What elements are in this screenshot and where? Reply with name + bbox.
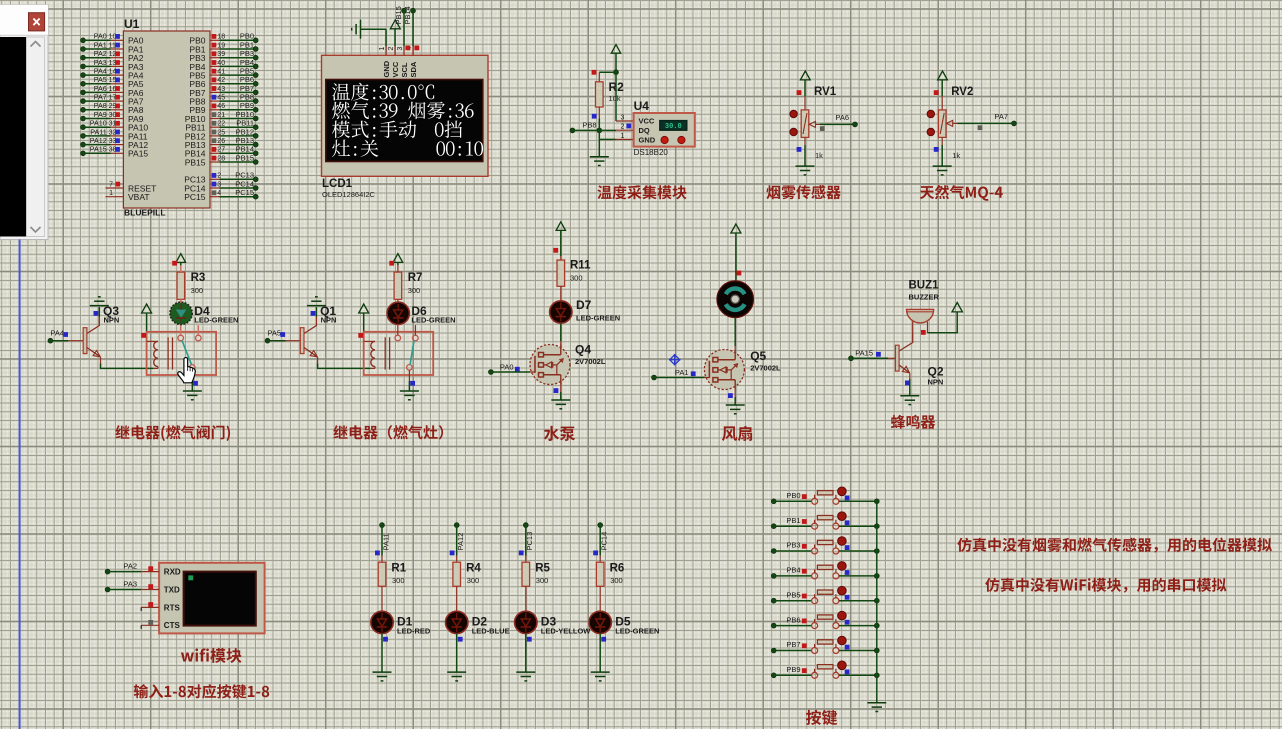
svg-text:PA1: PA1 (675, 368, 689, 377)
svg-text:LED-RED: LED-RED (397, 627, 431, 636)
no-place marker (blue diamond) (669, 354, 680, 365)
svg-text:PB4: PB4 (240, 58, 254, 67)
annotation 仿真中没有烟雾和燃气传感器，用的电位器模拟 (957, 538, 1272, 553)
state square (R1 top) (375, 551, 380, 556)
svg-text:PB9: PB9 (240, 101, 254, 110)
U1 right pin 4 wire / node PC15 (210, 196, 220, 198)
svg-text:PC15: PC15 (235, 188, 254, 197)
svg-text:PA8: PA8 (94, 101, 107, 110)
fan motor (717, 281, 754, 318)
wire junction to DQ pin (599, 129, 616, 131)
svg-text:7: 7 (109, 181, 113, 188)
U1 left pin 10 wire / node PA0 (81, 38, 86, 43)
svg-text:PB0: PB0 (240, 32, 254, 41)
label 风扇 (722, 426, 752, 441)
svg-text:DQ: DQ (639, 126, 650, 135)
transistor Q1 NPN (300, 328, 304, 354)
U1 left pin 32 wire / node PA11 (81, 134, 86, 139)
svg-text:PA15: PA15 (128, 149, 148, 159)
annotation 仿真中没有WiFi模块，用的串口模拟 (985, 578, 1226, 593)
relay switch arm (410, 341, 414, 365)
wire button PB9 to bus (839, 674, 877, 676)
node PB1 terminal (771, 524, 776, 529)
mouse cursor hand (178, 358, 196, 383)
state square (R11 top) (553, 248, 558, 253)
svg-text:PB15: PB15 (236, 153, 254, 162)
wire power to RV1 (804, 80, 806, 96)
led D7 LED-GREEN off (550, 301, 572, 323)
wire button PB4 to bus (839, 575, 877, 577)
label 蜂鸣器 (891, 415, 935, 429)
button actuator (PB7) (838, 636, 847, 645)
svg-text:BLUEPILL: BLUEPILL (124, 208, 166, 218)
state square (R4 top) (450, 551, 455, 556)
power arrow (R7 top) (393, 254, 403, 263)
state square (D3 bottom) (527, 637, 532, 642)
state square (R5 top) (519, 551, 524, 556)
state square (Q1 collector) (311, 311, 316, 316)
wire PB1 to button (774, 525, 812, 527)
resistor R4 300 (456, 556, 458, 563)
svg-text:NPN: NPN (928, 378, 944, 387)
floating preview window (0, 5, 48, 240)
resistor R1 300 (381, 556, 383, 563)
node PA15 terminal (849, 356, 854, 361)
ground (D3) (516, 672, 535, 681)
ground (D5) (591, 672, 610, 681)
svg-text:PA15: PA15 (855, 349, 873, 358)
wire PB4 to button (774, 575, 812, 577)
Q3 emitter (87, 348, 100, 357)
U1 left pin 13 wire / node PA3 (81, 64, 86, 69)
svg-text:300: 300 (392, 576, 405, 585)
power arrow (R11 top) (556, 222, 565, 231)
state square (buzzer) (921, 330, 926, 335)
ground (relay) (400, 391, 419, 400)
relay coil (147, 340, 158, 342)
push button PB1 (812, 523, 818, 529)
node PA0 terminal (489, 370, 494, 375)
state square (Q5 source) (728, 393, 733, 398)
state square (button PB9) (802, 668, 807, 673)
svg-text:LED-YELLOW: LED-YELLOW (541, 627, 591, 636)
svg-text:3: 3 (397, 47, 404, 51)
buzzer leads (912, 322, 914, 334)
svg-text:18: 18 (217, 34, 225, 41)
svg-text:R6: R6 (610, 562, 625, 574)
ground (above Q3, flipped) (90, 297, 109, 306)
bus junction (PB6) (874, 623, 879, 628)
U1 right pin 42 wire / node PB6 (210, 83, 220, 85)
svg-text:26: 26 (217, 138, 225, 145)
svg-text:19: 19 (217, 42, 225, 49)
U1 right pin 21 wire / node PB10 (210, 118, 220, 120)
svg-text:RV1: RV1 (814, 86, 837, 98)
node junction dot R2 top (614, 70, 619, 75)
U1 left pin 17 wire / node PA7 (81, 99, 86, 104)
LCD screen text line1 (332, 83, 434, 101)
relay core (167, 337, 169, 369)
wire PA0 to Q4 gate (491, 371, 530, 373)
U1 RESET pin 7 (106, 187, 124, 189)
state square (R6 top) (593, 551, 598, 556)
U1 right pin 43 wire / node PB7 (210, 91, 220, 93)
svg-text:VBAT: VBAT (128, 192, 150, 202)
node PC14 terminal (598, 523, 603, 528)
svg-text:PA3: PA3 (123, 580, 137, 589)
wire GND pin of U4 (616, 138, 634, 140)
bus junction (PB3) (874, 549, 879, 554)
U1 right pin 27 wire / node PB14 (210, 152, 220, 154)
relay coil (364, 340, 375, 342)
state square (RV2 top) (934, 90, 939, 95)
svg-text:PA5: PA5 (267, 329, 281, 338)
label 天然气MQ-4 (920, 185, 1003, 201)
microcontroller U1 BLUEPILL (123, 31, 210, 208)
wire button PB7 to bus (839, 650, 877, 652)
svg-text:PA3: PA3 (94, 58, 107, 67)
power arrow (R3 top) (176, 254, 186, 263)
wire PB8 terminal (570, 128, 575, 133)
wire PC13 to R5 (525, 525, 527, 555)
svg-text:PB13: PB13 (236, 136, 254, 145)
svg-text:LED-GREEN: LED-GREEN (615, 627, 659, 636)
push button PB6 (812, 623, 818, 629)
U1 right pin 25 wire / node PB12 (210, 135, 220, 137)
svg-text:4: 4 (217, 190, 221, 197)
wire PB3 to button (774, 550, 812, 552)
button actuator (PB1) (838, 512, 847, 521)
resistor R3 300 (177, 272, 185, 299)
svg-text:PA6: PA6 (835, 113, 849, 122)
U1 right pin 26 wire / node PB13 (210, 144, 220, 146)
RV2 bottom to ground (941, 137, 943, 145)
svg-text:41: 41 (217, 69, 225, 76)
U1 left pin 16 wire / node PA6 (81, 90, 86, 95)
wire button PB3 to bus (839, 550, 877, 552)
node PA11 terminal (380, 523, 385, 528)
wire Q1 collector to flipped ground (315, 307, 317, 317)
svg-text:3: 3 (217, 181, 221, 188)
wire R2 bottom to PB8 row (598, 119, 600, 131)
node PB6 terminal (771, 623, 776, 628)
svg-text:PB11: PB11 (236, 119, 254, 128)
button actuator (PB6) (838, 611, 847, 620)
U1 VBAT pin 1 (106, 196, 124, 198)
wire button PB0 to bus (839, 500, 877, 502)
U1 right pin 45 wire / node PB8 (210, 100, 220, 102)
wifi RXD pin / node PA2 (141, 571, 159, 573)
led D2 LED-BLUE off (446, 611, 468, 633)
wire PA1 to Q5 gate (654, 377, 705, 379)
bus junction (PB7) (874, 648, 879, 653)
LCD1 pin state squares (405, 46, 410, 51)
wire button PB5 to bus (839, 600, 877, 602)
svg-text:TXD: TXD (164, 585, 180, 594)
led D6 LED-GREEN (397, 324, 399, 335)
svg-text:40: 40 (217, 60, 225, 67)
wire PA15 to Q2 base (851, 357, 888, 359)
U1 left pin 30 wire / node PA9 (81, 116, 86, 121)
svg-text:PB3: PB3 (240, 49, 254, 58)
relay contact circles (178, 335, 184, 341)
bus junction (PB4) (874, 574, 879, 579)
svg-text:GND: GND (382, 60, 391, 77)
ground (RV2) (933, 166, 952, 175)
svg-text:1: 1 (109, 190, 113, 197)
wire power to R11 (560, 230, 562, 256)
wire PB7 to button (774, 650, 812, 652)
ground (above Q1, flipped) (307, 297, 326, 306)
svg-text:NPN: NPN (104, 315, 120, 324)
node PB7 terminal (771, 648, 776, 653)
svg-text:PB6: PB6 (786, 615, 800, 624)
temperature sensor U4 DS18B20 (634, 113, 695, 147)
svg-text:21: 21 (217, 112, 225, 119)
wire PB0 to button (774, 500, 812, 502)
wire power to relay box (146, 313, 148, 332)
resistor R2 10k (598, 72, 600, 82)
LCD screen text line3 (332, 121, 416, 139)
svg-text:OLED12864I2C: OLED12864I2C (322, 190, 376, 199)
transistor Q4 2V7002L MOSFET (530, 345, 570, 385)
svg-text:PB10: PB10 (236, 110, 254, 119)
LCD screen text line2 (332, 102, 473, 120)
svg-text:PC13: PC13 (235, 171, 254, 180)
wire power to buzzer (928, 312, 958, 333)
led D4 LED-GREEN (180, 324, 182, 335)
button actuator (PB9) (838, 661, 847, 670)
window close button (29, 13, 45, 31)
bus junction (PB9) (874, 673, 879, 678)
relay pole to ground (408, 370, 410, 381)
svg-text:PB4: PB4 (786, 566, 800, 575)
svg-text:R11: R11 (570, 260, 591, 272)
label 水泵 (544, 426, 575, 441)
push button PB4 (812, 573, 818, 579)
state square (RV1 top) (797, 90, 802, 95)
relay core (384, 337, 386, 369)
svg-text:PA7: PA7 (94, 93, 107, 102)
label wifi模块 (181, 648, 242, 663)
state square (relay coil top) (141, 333, 146, 338)
svg-text:R5: R5 (535, 562, 550, 574)
U1 left pin 11 wire / node PA1 (81, 47, 86, 52)
svg-text:PB5: PB5 (786, 590, 800, 599)
svg-text:2: 2 (621, 124, 625, 131)
state square (button PB4) (802, 569, 807, 574)
U1 left pin 15 wire / node PA5 (81, 81, 86, 86)
button actuator (PB3) (838, 537, 847, 546)
svg-text:PA9: PA9 (94, 110, 107, 119)
button actuator (PB4) (838, 562, 847, 571)
U1 right pin 19 wire / node PB1 (210, 48, 220, 50)
wire LCD VCC to power (394, 29, 396, 47)
svg-text:PA15: PA15 (90, 145, 107, 154)
window scrollbar (27, 37, 45, 237)
svg-text:PC15: PC15 (184, 192, 206, 202)
svg-text:PA11: PA11 (90, 127, 107, 136)
svg-text:PB8: PB8 (240, 93, 254, 102)
bus junction (PB0) (874, 499, 879, 504)
push button PB7 (812, 648, 818, 654)
wire SDA / node PB14 (412, 11, 414, 47)
svg-text:VCC: VCC (639, 117, 655, 126)
U1 right pin 3 wire / node PC14 (210, 187, 220, 189)
svg-text:RXD: RXD (164, 568, 181, 577)
state square (Q2 base) (876, 352, 881, 357)
wire LCD GND to ground (385, 29, 387, 46)
wire Q4 source to ground (560, 385, 562, 393)
state square (D2 bottom) (458, 637, 463, 642)
wire Q3 emitter to relay coil (101, 364, 154, 369)
ground (D2) (447, 672, 466, 681)
power arrow (LCD1 VCC) (390, 20, 400, 29)
state square (button PB0) (802, 494, 807, 499)
ground (fan) (726, 405, 745, 414)
wifi module box (159, 563, 265, 634)
node PB5 terminal (771, 598, 776, 603)
power arrow (relay coil R7) (359, 304, 369, 313)
svg-text:25: 25 (217, 129, 225, 136)
svg-text:PA6: PA6 (94, 84, 107, 93)
wire PA4 to Q3 base (50, 340, 68, 342)
wire junction down to ground (598, 130, 600, 156)
wire SCL / node PB15 (403, 11, 405, 47)
power arrow (fan motor top) (731, 224, 741, 233)
svg-text:PA7: PA7 (994, 112, 1008, 121)
node PA12 terminal (454, 523, 459, 528)
svg-text:27: 27 (217, 147, 225, 154)
wire PA11 to R1 (381, 525, 383, 555)
state square (U4 DQ) (626, 124, 631, 129)
svg-text:PA1: PA1 (94, 40, 107, 49)
svg-text:300: 300 (536, 576, 549, 585)
svg-text:PB15: PB15 (185, 157, 206, 167)
node PB3 terminal (771, 549, 776, 554)
power arrow (buzzer) (952, 303, 962, 312)
transistor Q5 2V7002L MOSFET (704, 350, 744, 390)
wire D3 to ground (525, 634, 527, 673)
svg-text:3: 3 (621, 114, 625, 121)
relay box (147, 332, 217, 375)
svg-text:28: 28 (217, 155, 225, 162)
svg-text:2V7002L: 2V7002L (575, 357, 606, 366)
label 继电器(燃气阀门) (115, 425, 230, 441)
ground (buzzer) (900, 396, 919, 405)
svg-text:LCD1: LCD1 (322, 178, 353, 190)
wire Q2 emitter to ground (909, 379, 911, 396)
node PB0 terminal (771, 499, 776, 504)
svg-text:VCC: VCC (391, 61, 400, 77)
wifi CTS pin stub (141, 624, 159, 626)
svg-text:PB9: PB9 (786, 665, 800, 674)
svg-text:300: 300 (408, 286, 421, 295)
resistor R11 300 (560, 256, 562, 260)
wire D1 to ground (381, 634, 383, 673)
power arrow (RV2) (938, 71, 948, 80)
svg-text:PA10: PA10 (90, 119, 107, 128)
svg-text:LED-GREEN: LED-GREEN (576, 313, 620, 322)
svg-text:CTS: CTS (164, 621, 181, 630)
wire D7 to Q4 drain (560, 324, 562, 342)
svg-text:BUZ1: BUZ1 (909, 280, 940, 292)
label 烟雾传感器 (766, 185, 840, 199)
ground (LCD1, rotated left) (352, 20, 361, 39)
wire PB9 to button (774, 674, 812, 676)
svg-text:1: 1 (621, 133, 625, 140)
svg-text:DS18B20: DS18B20 (634, 148, 669, 157)
svg-text:PB15: PB15 (394, 6, 403, 24)
U1 right pin 18 wire / node PB0 (210, 39, 220, 41)
U1 left pin 38 wire / node PA15 (81, 151, 86, 156)
bus junction (PB1) (874, 524, 879, 529)
transistor Q2 NPN (895, 345, 899, 371)
svg-text:22: 22 (217, 121, 225, 128)
label 按键 (806, 710, 837, 725)
svg-text:42: 42 (217, 77, 225, 84)
svg-text:RV2: RV2 (951, 86, 973, 98)
svg-text:1: 1 (379, 47, 386, 51)
ground (temperature module) (590, 157, 609, 166)
svg-text:PB7: PB7 (786, 640, 800, 649)
potentiometer RV1 1k (804, 96, 806, 110)
node PB8 junction (597, 128, 602, 133)
button bus wire (876, 501, 878, 702)
wire RV2 wiper / node PA7 (957, 122, 1014, 124)
state square (Q4 gate) (515, 367, 520, 372)
wire VCC pin of U4 (615, 72, 617, 121)
svg-text:R7: R7 (408, 272, 423, 284)
node PB9 terminal (771, 673, 776, 678)
relay NC stub (414, 325, 416, 335)
label 温度采集模块 (597, 185, 686, 199)
wire RV1 wiper / node PA6 (820, 123, 855, 125)
svg-text:LED-GREEN: LED-GREEN (194, 315, 238, 324)
svg-text:Q5: Q5 (750, 349, 766, 363)
svg-text:PB14: PB14 (403, 6, 412, 24)
button actuator (PB5) (838, 586, 847, 595)
state square (Q5 gate) (691, 371, 696, 376)
U1 left pin 31 wire / node PA10 (81, 125, 86, 130)
svg-text:U1: U1 (124, 17, 140, 31)
state square (button PB3) (802, 544, 807, 549)
svg-text:PC14: PC14 (235, 179, 254, 188)
svg-text:Q2: Q2 (928, 365, 944, 379)
U1 left pin 29 wire / node PA8 (81, 107, 86, 112)
led D3 LED-YELLOW off (515, 611, 537, 633)
U1 right pin 40 wire / node PB4 (210, 65, 220, 67)
svg-text:GND: GND (639, 135, 656, 144)
wire PB5 to button (774, 600, 812, 602)
svg-text:2V7002L: 2V7002L (750, 364, 781, 373)
power arrow (relay coil R3) (142, 304, 152, 313)
RV1 terminal red circles (790, 110, 797, 117)
wire PC14 to R6 (599, 525, 601, 555)
wire button PB1 to bus (839, 525, 877, 527)
svg-text:RTS: RTS (164, 603, 181, 612)
wire button PB6 to bus (839, 625, 877, 627)
potentiometer RV2 1k (941, 96, 943, 110)
node PA5 terminal (265, 338, 270, 343)
svg-text:PA2: PA2 (94, 49, 107, 58)
power arrow (R2 top) (611, 45, 620, 54)
wire Q1 emitter to relay coil (318, 364, 371, 369)
svg-text:LED-GREEN: LED-GREEN (411, 315, 455, 324)
node PA1 terminal (652, 375, 657, 380)
relay pole to ground (191, 370, 193, 381)
svg-text:R4: R4 (466, 562, 481, 574)
